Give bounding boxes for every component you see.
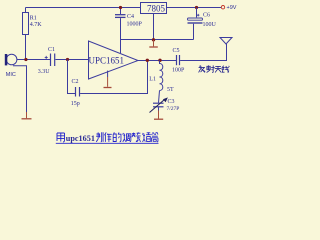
microphone MIC electret bar bbox=[5, 54, 8, 65]
wire: C5 to antenna bbox=[180, 44, 226, 61]
microphone MIC circle bbox=[6, 54, 17, 65]
capacitor C4 top plate bbox=[115, 14, 126, 16]
svg-text:C1: C1 bbox=[48, 47, 55, 53]
terminal +9V circle bbox=[221, 6, 224, 9]
wire: feedback branch right side bbox=[80, 61, 147, 94]
capacitor C6 plus sign bbox=[197, 14, 200, 17]
svg-text:3.3U: 3.3U bbox=[38, 69, 51, 75]
svg-text:C4: C4 bbox=[127, 14, 134, 20]
ground GND4 stub bbox=[158, 111, 160, 119]
svg-text:5T: 5T bbox=[167, 87, 174, 93]
svg-text:15p: 15p bbox=[71, 101, 80, 107]
capacitor C1 plus sign bbox=[45, 56, 48, 59]
capacitor C2 right plate bbox=[79, 87, 81, 97]
svg-text:100P: 100P bbox=[172, 68, 185, 74]
wire: C6 bottom lead to ground rail bbox=[193, 24, 195, 40]
svg-text:7805: 7805 bbox=[147, 3, 166, 13]
inductor L1 coil bbox=[160, 61, 163, 91]
ground GND1 bar bbox=[22, 118, 32, 120]
title underline bbox=[56, 142, 159, 144]
svg-text:1000P: 1000P bbox=[127, 21, 143, 27]
wire: ground rail bbox=[121, 39, 194, 41]
junction node A bbox=[24, 58, 27, 61]
svg-text:upc1651: upc1651 bbox=[66, 134, 95, 143]
ground GND3 stub bbox=[153, 40, 155, 46]
ground GND4 bar bbox=[154, 118, 163, 120]
capacitor C1 right plate bbox=[54, 54, 56, 67]
capacitor C5 right plate bbox=[179, 55, 181, 65]
ground GND3 bar bbox=[149, 46, 158, 48]
capacitor C4 bottom plate bbox=[115, 16, 126, 18]
svg-text:+9V: +9V bbox=[227, 5, 237, 11]
wire: +5V top rail bbox=[26, 7, 141, 9]
wire: C1 to amplifier input bbox=[55, 59, 88, 61]
capacitor C3 trimmer arrow bbox=[150, 100, 165, 113]
svg-text:7/27P: 7/27P bbox=[167, 106, 180, 112]
capacitor C1 left plate bbox=[50, 54, 52, 67]
capacitor C4 top lead bbox=[120, 8, 122, 15]
capacitor C3 top plate bbox=[153, 102, 164, 104]
junction node C bbox=[119, 6, 122, 9]
capacitor C6 bottom plate bbox=[188, 22, 203, 23]
resistor R1 body bbox=[23, 13, 29, 35]
wire: amplifier output row bbox=[137, 60, 176, 62]
svg-text:4.7K: 4.7K bbox=[30, 22, 43, 28]
regulator U2 7805 box bbox=[141, 3, 167, 14]
wire: R1 top lead bbox=[25, 8, 27, 13]
op-amp U1 triangle bbox=[89, 41, 139, 79]
svg-text:C6: C6 bbox=[203, 13, 210, 19]
capacitor C5 left plate bbox=[176, 55, 178, 65]
wire: C4 bottom lead down to amplifier top bbox=[120, 18, 122, 53]
svg-text:UPC1651: UPC1651 bbox=[89, 56, 125, 66]
wire: MIC plus lead to node A bbox=[17, 59, 50, 61]
wire: R1 bottom lead to node A bbox=[25, 35, 27, 60]
wire: feedback branch left side bbox=[68, 60, 76, 94]
ground GND2 stub bbox=[107, 77, 109, 87]
wire: MIC minus lead down bbox=[13, 66, 27, 112]
junction node D bbox=[152, 38, 155, 41]
wire: 7805 output to +9V terminal bbox=[167, 7, 221, 9]
capacitor C2 left plate bbox=[75, 87, 77, 97]
wire: 7805 ground pin bbox=[153, 14, 155, 40]
capacitor C6 top lead bbox=[196, 8, 198, 18]
svg-text:R1: R1 bbox=[30, 16, 37, 22]
wire: U1 ground stub bbox=[107, 71, 109, 77]
junction node G bbox=[158, 59, 161, 62]
wire: L1 to C3 bbox=[159, 91, 160, 103]
ground GND2 bar bbox=[104, 87, 112, 89]
svg-text:MIC: MIC bbox=[6, 72, 16, 78]
capacitor C6 top plate bbox=[188, 18, 203, 20]
junction node E bbox=[195, 6, 198, 9]
antenna ANT1 bbox=[220, 38, 232, 45]
svg-text:C5: C5 bbox=[173, 48, 180, 54]
svg-text:100U: 100U bbox=[203, 22, 217, 28]
ground GND1 stub bbox=[26, 112, 28, 118]
svg-text:C3: C3 bbox=[168, 99, 175, 105]
capacitor C3 bottom plate bbox=[153, 106, 164, 108]
label 发射天线 bbox=[199, 65, 230, 72]
junction node F bbox=[146, 59, 149, 62]
svg-text:L1: L1 bbox=[149, 77, 156, 83]
wire: C3 bottom lead bbox=[158, 107, 160, 110]
svg-text:C2: C2 bbox=[72, 79, 79, 85]
junction node B bbox=[66, 58, 69, 61]
title 用upc1651制作的调频话筒 bbox=[57, 133, 65, 142]
